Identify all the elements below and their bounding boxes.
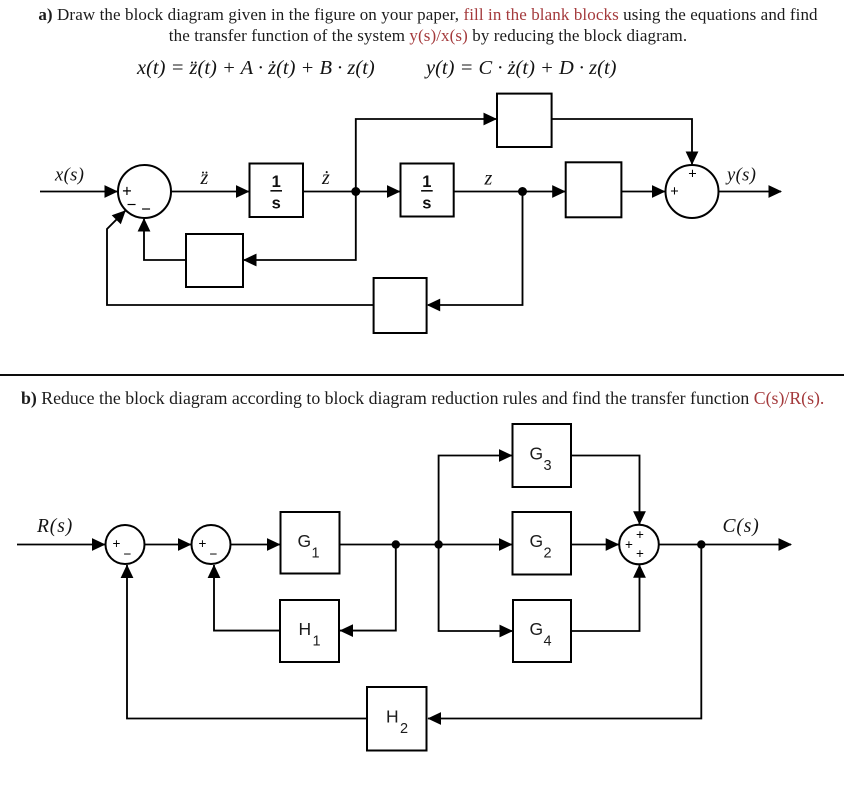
- svg-text:2: 2: [544, 546, 552, 562]
- svg-text:+: +: [636, 546, 644, 561]
- svg-text:s: s: [272, 195, 281, 213]
- svg-text:1: 1: [272, 173, 281, 191]
- svg-text:G: G: [298, 531, 312, 551]
- svg-text:2: 2: [400, 721, 408, 737]
- svg-text:3: 3: [544, 458, 552, 474]
- svg-text:1: 1: [312, 546, 320, 562]
- svg-text:C(s): C(s): [723, 516, 760, 537]
- svg-text:G: G: [530, 619, 544, 639]
- svg-text:1: 1: [422, 173, 431, 191]
- svg-text:1: 1: [313, 634, 321, 650]
- svg-text:H: H: [299, 619, 312, 639]
- svg-text:−: −: [141, 201, 151, 219]
- svg-text:H: H: [386, 707, 399, 727]
- svg-text:+: +: [113, 536, 121, 551]
- svg-text:G: G: [530, 531, 544, 551]
- svg-text:+: +: [670, 184, 678, 200]
- svg-text:G: G: [530, 444, 544, 464]
- svg-text:4: 4: [544, 634, 552, 650]
- svg-text:−: −: [210, 547, 218, 562]
- svg-text:−: −: [127, 196, 137, 214]
- svg-text:z̈: z̈: [200, 167, 209, 189]
- svg-text:z: z: [484, 168, 493, 190]
- svg-text:s: s: [422, 195, 431, 213]
- svg-text:+: +: [636, 527, 644, 542]
- svg-text:y(s): y(s): [725, 166, 756, 186]
- svg-text:+: +: [688, 167, 696, 183]
- svg-text:ż: ż: [321, 167, 330, 189]
- svg-text:−: −: [124, 547, 132, 562]
- svg-text:+: +: [625, 537, 633, 552]
- svg-text:R(s): R(s): [36, 516, 73, 537]
- svg-text:x(s): x(s): [54, 166, 84, 186]
- svg-text:+: +: [199, 536, 207, 551]
